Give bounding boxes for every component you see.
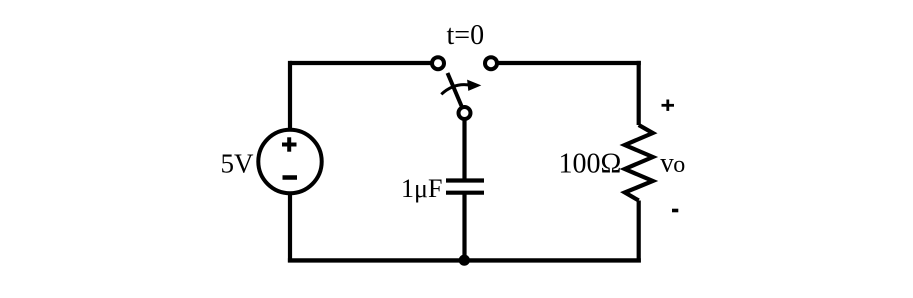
svg-text:o: o [673,152,685,178]
svg-text:5V: 5V [221,148,255,178]
svg-text:v: v [660,148,674,178]
svg-text:t=0: t=0 [447,20,485,51]
svg-text:100Ω: 100Ω [559,149,622,180]
svg-text:1μF: 1μF [401,174,442,203]
